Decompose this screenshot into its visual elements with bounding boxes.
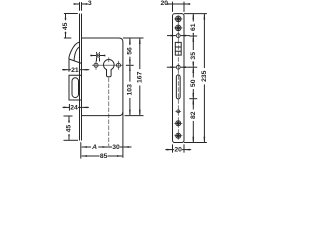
dim 85 left arrow (82, 155, 90, 157)
label 235 (202, 68, 208, 84)
faceplate bottom extension (80, 142, 82, 158)
cylinder fixing hole with pointing arrows (176, 65, 180, 69)
dimension 3 right arrow (82, 3, 88, 5)
countersunk screw hole bottom 1 (176, 121, 181, 126)
svg-text:21: 21 (71, 67, 79, 74)
euro profile cylinder cutout (104, 60, 115, 77)
dim 20 top right arrow (184, 3, 190, 5)
cylinder vertical centerline (108, 57, 110, 62)
countersunk screw hole top 1 (176, 16, 182, 22)
svg-text:56: 56 (126, 47, 133, 55)
dim 45 bottom vertical (68, 116, 70, 120)
dim 235 (203, 14, 205, 17)
tick case bottom left (64, 115, 73, 117)
dim 85 right arrow (115, 155, 123, 157)
svg-text:24: 24 (70, 105, 78, 112)
dim 8 left arrow (90, 55, 96, 57)
small hole with pointing arrows (176, 34, 180, 38)
dim 21 line (69, 69, 82, 71)
label 50 (191, 78, 197, 89)
label 20 bottom (174, 147, 182, 153)
dim 24 left arrow (63, 106, 70, 108)
label 45 top (63, 20, 69, 31)
plate bottom extension line right (184, 142, 207, 144)
countersunk screw hole bottom 2 (176, 133, 181, 138)
dimension 3 left arrow (74, 3, 79, 5)
dim 167 vertical (139, 38, 141, 42)
tick at 36 (189, 35, 197, 37)
tick at 67.2 (189, 66, 197, 68)
faceplate front view outline (173, 14, 185, 143)
plate bottom extension lines for 20 (173, 144, 185, 152)
dim 24 right arrow (82, 106, 89, 108)
svg-text:30: 30 (112, 144, 120, 151)
svg-text:85: 85 (100, 153, 108, 160)
label 35 (191, 50, 197, 61)
svg-text:103: 103 (126, 84, 133, 96)
cylinder axis dashed extension (108, 78, 110, 150)
tick at cylinder centerline right (126, 64, 134, 66)
label 24 (70, 105, 78, 111)
faceplate extension lines for 3mm dim (80, 2, 82, 11)
case bottom extension line (125, 115, 144, 117)
case top extension line (123, 37, 144, 39)
left fixing hole (94, 63, 98, 67)
dim 50 (192, 68, 194, 72)
plate extension lines for 20 top (173, 2, 185, 12)
dim A right arrow (103, 146, 108, 148)
slot housing box on faceplate (69, 75, 82, 100)
label 21 (71, 67, 79, 73)
dim 21 left arrow (62, 69, 69, 71)
small hole middle bottom (177, 110, 180, 113)
dim 20 bottom line (173, 149, 185, 151)
tick at faceplate top (64, 13, 78, 15)
label 45 bottom (66, 123, 72, 134)
svg-text:45: 45 (62, 22, 69, 30)
dim 61 (192, 14, 194, 17)
tick at case top left (64, 37, 71, 39)
svg-text:20: 20 (161, 0, 169, 7)
dim A left arrow (82, 146, 88, 148)
label 61 (191, 22, 197, 33)
dim 82 (192, 99, 194, 103)
case edge bottom extension (122, 112, 124, 158)
narrow hook slot (176, 75, 180, 99)
label 8 (97, 53, 100, 58)
label 167 (137, 69, 143, 85)
hook bolt inner edge (74, 47, 80, 61)
svg-text:82: 82 (190, 111, 197, 119)
dim 20 top left arrow (168, 3, 172, 5)
dim 20 top line (173, 3, 185, 5)
dim 35 (192, 36, 194, 40)
dim 56 vertical (129, 38, 131, 42)
tick faceplate bottom left (64, 139, 79, 141)
horizontal centerline through holes (92, 64, 123, 66)
svg-text:235: 235 (201, 70, 208, 82)
svg-text:A: A (91, 144, 97, 151)
label 30 (112, 144, 120, 150)
dim 85 line (88, 155, 116, 157)
dim 21 right arrow (82, 69, 89, 71)
dim A line (86, 146, 104, 148)
text labels with white backing (62, 0, 208, 160)
svg-text:167: 167 (136, 71, 143, 83)
label A (91, 144, 98, 150)
label 82 (191, 110, 197, 121)
svg-text:3: 3 (88, 0, 92, 7)
extension line for 21 dim (hook tip) (68, 60, 70, 72)
plate top extension line right (184, 13, 207, 15)
svg-text:50: 50 (190, 79, 197, 87)
label 56 (127, 45, 133, 56)
lock case outline (82, 38, 123, 116)
plate vertical centerline dashed (177, 15, 179, 141)
hook slot window (175, 42, 181, 55)
countersunk screw hole top 2 (176, 25, 182, 31)
dim 24 line (69, 106, 81, 108)
faceplate edge view (two vertical lines) (80, 14, 82, 141)
right fixing hole (116, 63, 120, 67)
dim 30 outside arrow (123, 146, 131, 148)
svg-text:61: 61 (190, 23, 197, 31)
hook bolt outer edge (69, 42, 82, 63)
dim 8 extension lines (97, 52, 100, 61)
dim 30 line (109, 146, 123, 148)
dim 20 bottom right arrow (184, 149, 191, 151)
tick at 98.7 (189, 98, 197, 100)
label 85 (100, 153, 108, 159)
rounded slot in housing (72, 78, 79, 98)
svg-text:45: 45 (66, 125, 73, 133)
svg-text:35: 35 (190, 52, 197, 60)
dim 8 right arrow (100, 55, 105, 57)
label 103 (127, 82, 133, 98)
extension tick for 24 dim (68, 104, 70, 111)
dim 20 bottom left arrow (165, 149, 172, 151)
svg-text:20: 20 (174, 146, 182, 153)
dim 45 top vertical line with arrows (65, 14, 67, 18)
dim 103 vertical (129, 66, 131, 70)
